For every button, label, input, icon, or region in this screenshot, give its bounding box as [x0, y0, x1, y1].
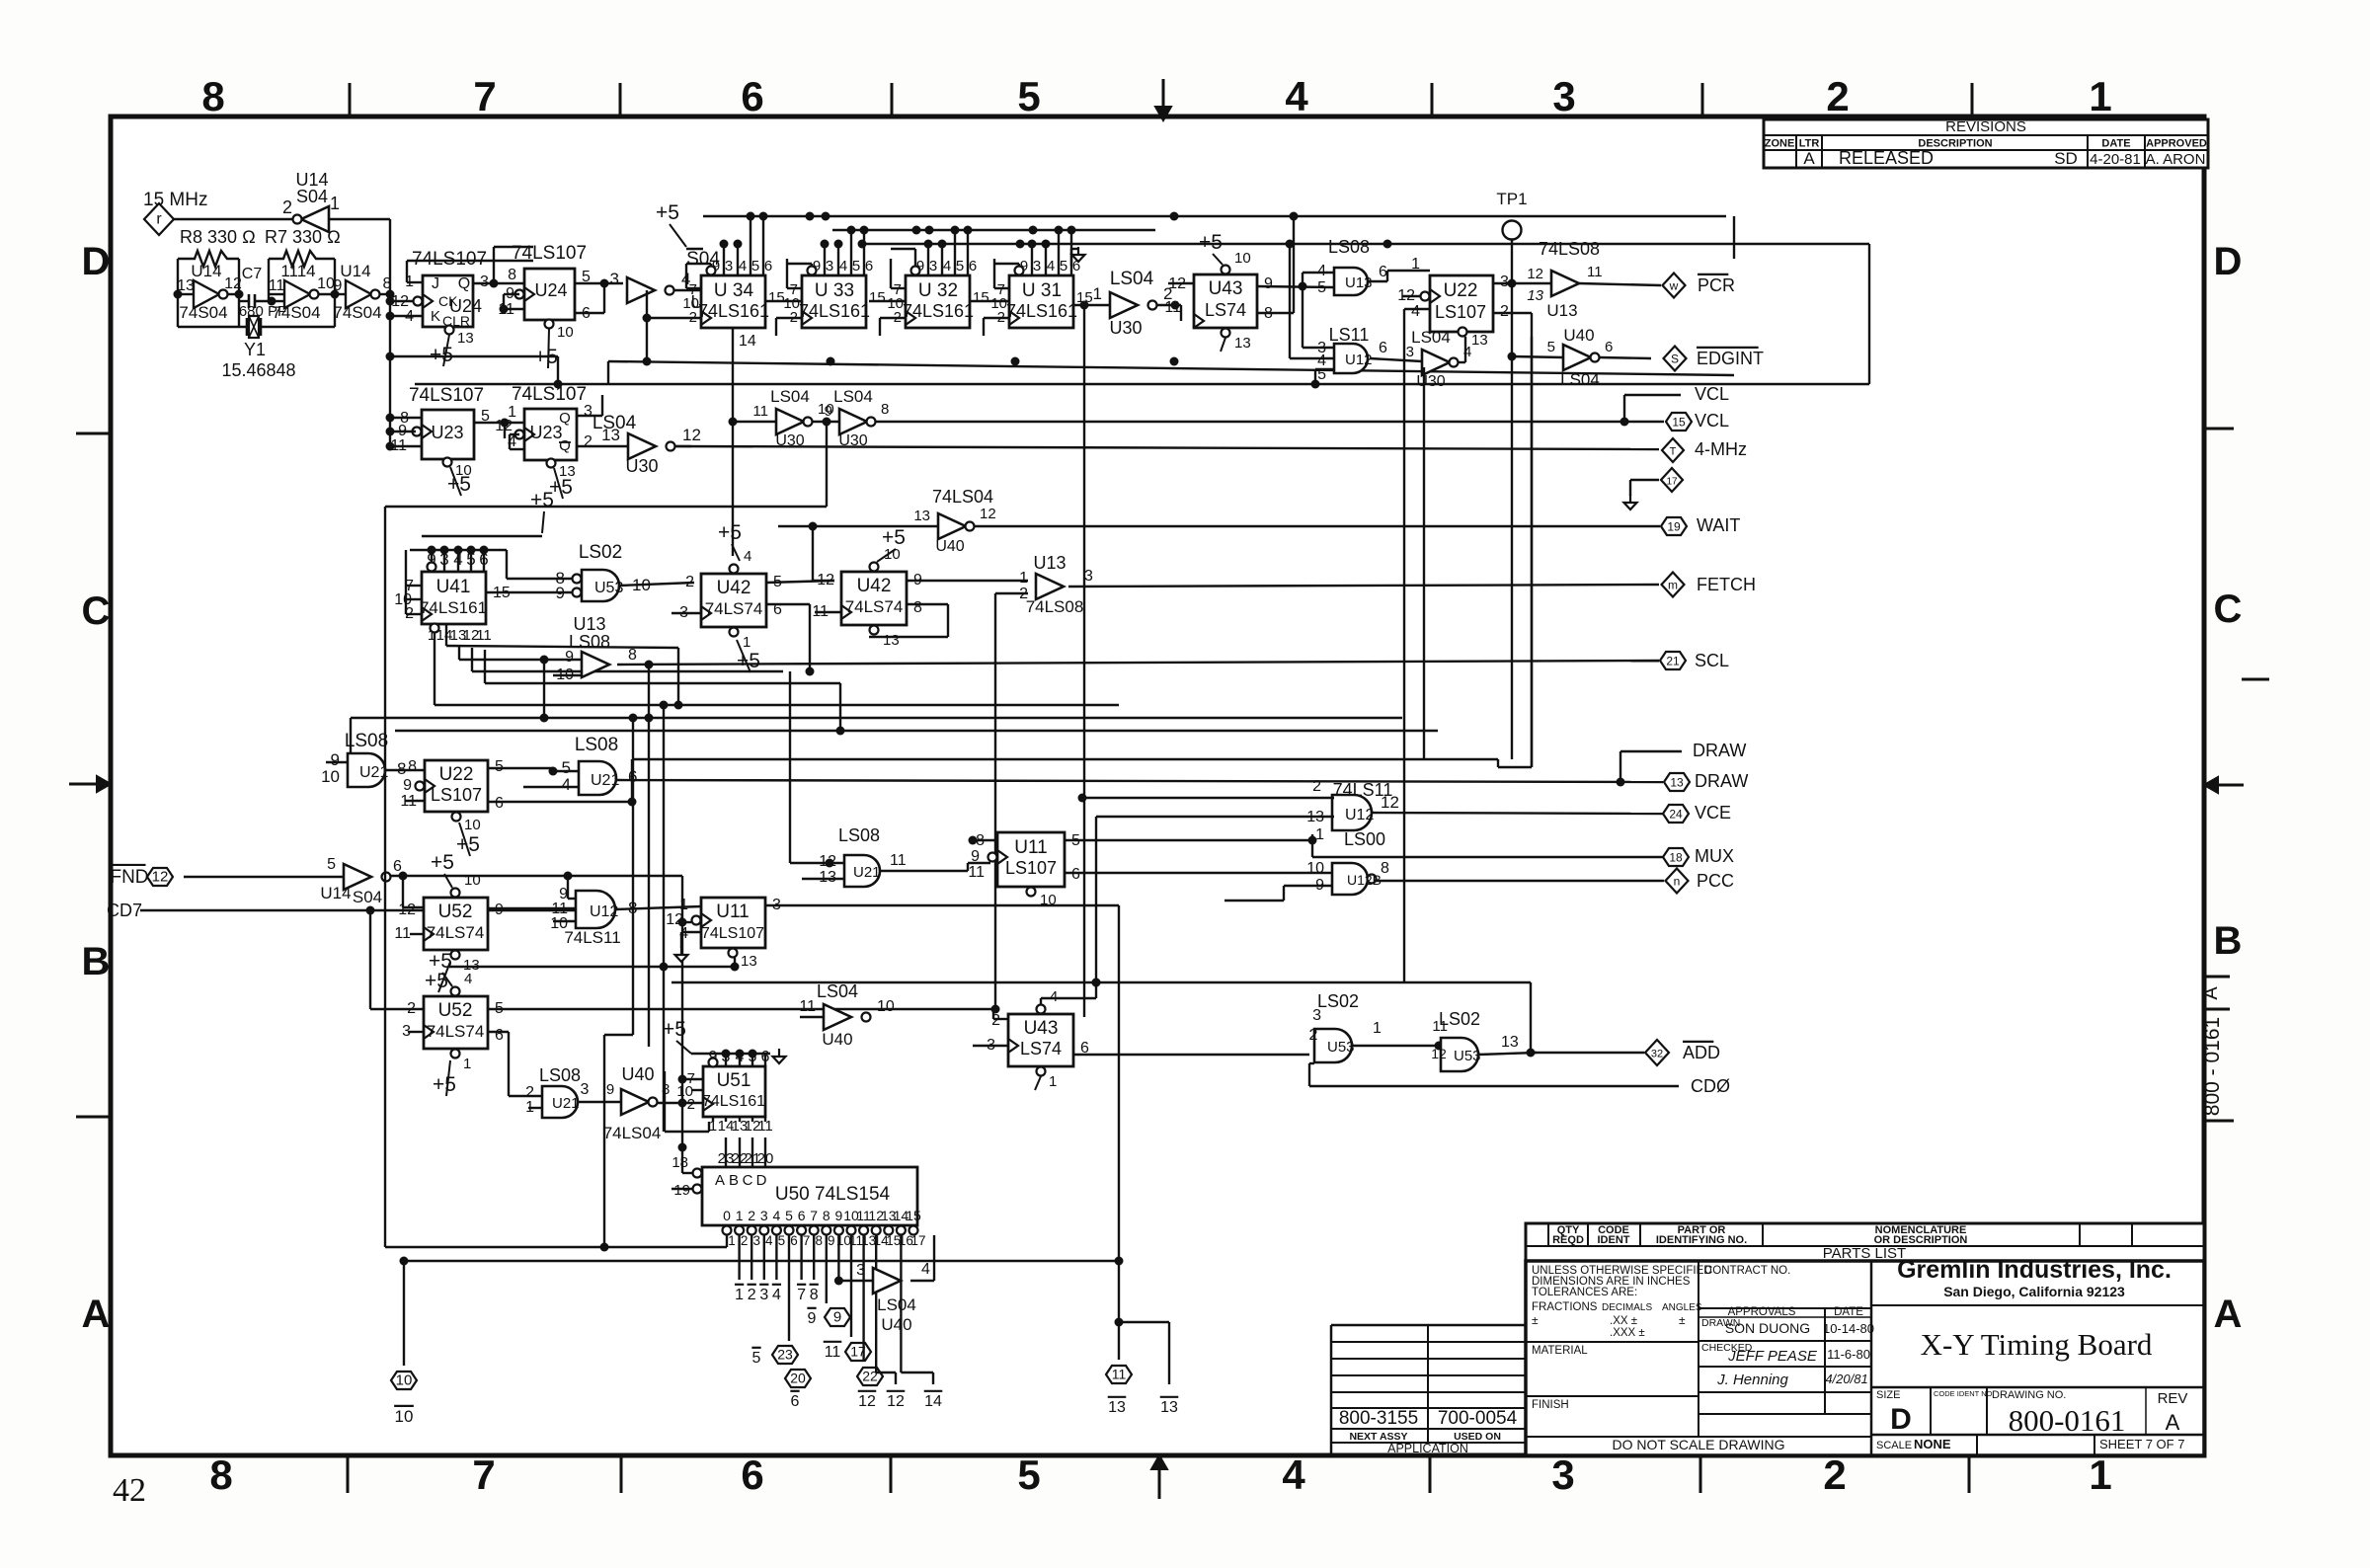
- wire U32 top pin stubs: [927, 244, 929, 275]
- svg-text:LS08: LS08: [1328, 237, 1370, 257]
- svg-text:14: 14: [739, 333, 756, 350]
- svg-text:IDENTIFYING NO.: IDENTIFYING NO.: [1656, 1234, 1747, 1246]
- svg-text:U53: U53: [594, 580, 623, 596]
- svg-text:13: 13: [883, 632, 900, 649]
- wire hex 10 drop: [403, 1261, 405, 1366]
- svg-text:12: 12: [398, 902, 416, 918]
- svg-text:6: 6: [969, 258, 977, 274]
- svg-text:12: 12: [682, 426, 701, 444]
- svg-text:9: 9: [565, 649, 574, 666]
- svg-text:U14: U14: [340, 262, 370, 280]
- svg-text:.XX ±: .XX ±: [1610, 1315, 1637, 1327]
- svg-text:CODE IDENT NO.: CODE IDENT NO.: [1934, 1389, 1995, 1398]
- svg-text:MATERIAL: MATERIAL: [1532, 1345, 1588, 1357]
- wire node column to y389 line: [390, 355, 558, 357]
- wire counter pin2 clock feeds: [647, 317, 701, 319]
- wire corner to 13: [1119, 1321, 1169, 1323]
- wire U50 drop 9 to hex: [826, 1235, 828, 1303]
- svg-text:U 31: U 31: [1022, 280, 1062, 301]
- svg-text:+5: +5: [718, 521, 742, 544]
- svg-text:FINISH: FINISH: [1532, 1399, 1569, 1411]
- svg-text:U30: U30: [625, 456, 658, 476]
- svg-text:MUX: MUX: [1695, 846, 1734, 866]
- svg-text:6: 6: [1379, 340, 1387, 356]
- svg-text:5: 5: [1017, 1451, 1040, 1498]
- R7 feedback loop wires: [268, 259, 270, 301]
- connector n PCC: [1666, 869, 1689, 894]
- svg-text:S04: S04: [296, 187, 328, 206]
- svg-text:12: 12: [980, 506, 996, 522]
- svg-text:17: 17: [910, 1233, 925, 1248]
- svg-text:2: 2: [1826, 73, 1849, 119]
- svg-text:8: 8: [1381, 860, 1389, 877]
- svg-text:4: 4: [744, 548, 751, 565]
- svg-text:IDENT: IDENT: [1598, 1234, 1630, 1246]
- wire U52-2 out5 long: [488, 1008, 993, 1010]
- wire vertical x1893: [1868, 244, 1870, 384]
- svg-text:U50 74LS154: U50 74LS154: [775, 1184, 891, 1205]
- wire U21 right out to U11-2: [880, 870, 968, 872]
- counter U33 74LS161: [802, 275, 866, 328]
- svg-text:3: 3: [759, 1287, 768, 1303]
- svg-text:9: 9: [808, 1310, 817, 1327]
- wire to PCR connector: [1579, 283, 1661, 285]
- svg-text:8: 8: [823, 1208, 830, 1223]
- wire U22 pin4 to trunk: [1404, 308, 1430, 310]
- svg-text:LS04: LS04: [817, 981, 858, 1001]
- svg-text:2: 2: [1309, 1027, 1318, 1044]
- svg-text:74LS08: 74LS08: [1026, 597, 1084, 616]
- svg-text:74LS161: 74LS161: [799, 301, 870, 321]
- svg-text:9: 9: [495, 902, 504, 918]
- svg-text:r: r: [156, 211, 162, 228]
- svg-text:A: A: [82, 1293, 111, 1336]
- svg-text:15.46848: 15.46848: [221, 360, 295, 380]
- svg-text:74LS74: 74LS74: [427, 1022, 485, 1041]
- svg-text:4: 4: [1050, 988, 1058, 1005]
- svg-text:+5: +5: [425, 970, 448, 992]
- wire U40 out to U51: [658, 1102, 703, 1104]
- svg-text:5: 5: [1317, 279, 1326, 296]
- svg-text:U42: U42: [857, 576, 892, 596]
- svg-text:LS74: LS74: [1205, 300, 1246, 320]
- wire counters pin9 rail: [695, 249, 703, 264]
- wire U23 pins from node column: [390, 417, 422, 419]
- wire U24-2 out down to row2 region: [603, 261, 605, 283]
- svg-text:C: C: [743, 1172, 753, 1189]
- wire U21 input1: [528, 1107, 542, 1109]
- svg-text:U12: U12: [590, 903, 618, 920]
- svg-text:11: 11: [1587, 264, 1603, 280]
- svg-text:DO NOT SCALE DRAWING: DO NOT SCALE DRAWING: [1612, 1437, 1784, 1452]
- wire EDGINT from TP1 node: [1512, 356, 1563, 357]
- svg-text:LS04: LS04: [1110, 269, 1154, 289]
- finish cell: [1526, 1395, 1698, 1397]
- wire U21 inputs: [326, 761, 348, 763]
- wire U43-2 out6 to U53: [1073, 1054, 1309, 1056]
- wire U24-1 pins: [390, 300, 413, 302]
- svg-text:3: 3: [1084, 568, 1093, 585]
- svg-text:74LS11: 74LS11: [564, 928, 620, 947]
- svg-text:13: 13: [1670, 776, 1684, 790]
- svg-text:S: S: [1671, 353, 1679, 366]
- svg-text:2: 2: [282, 197, 292, 217]
- alignment arrow left: [69, 783, 99, 786]
- svg-text:+5: +5: [430, 344, 453, 366]
- svg-text:10-14-80: 10-14-80: [1823, 1321, 1874, 1336]
- svg-text:1: 1: [1373, 1020, 1382, 1037]
- svg-text:CD7: CD7: [107, 901, 142, 920]
- wire U24-2 feedback 9-11: [504, 293, 519, 295]
- svg-text:4/20/81: 4/20/81: [1825, 1372, 1867, 1386]
- svg-text:LS107: LS107: [1005, 858, 1057, 878]
- svg-text:13: 13: [1527, 287, 1543, 304]
- svg-text:13: 13: [1234, 335, 1251, 352]
- wire U42-2 out9 to U13: [907, 580, 1028, 582]
- connector 21 SCL: [1660, 652, 1686, 669]
- wire U41 left outer loop: [406, 549, 410, 551]
- svg-text:D: D: [1890, 1403, 1912, 1436]
- svg-text:7: 7: [803, 1233, 811, 1248]
- svg-text:San Diego, California 92123: San Diego, California 92123: [1943, 1284, 2125, 1299]
- ground at U31 pin6: [1070, 249, 1072, 266]
- svg-text:32: 32: [1651, 1049, 1663, 1060]
- svg-text:.XXX ±: .XXX ±: [1610, 1327, 1645, 1339]
- wire trunk x672: [663, 705, 665, 1132]
- svg-text:D: D: [2214, 240, 2243, 283]
- svg-text:8: 8: [628, 647, 637, 664]
- wire U53 inputs: [507, 578, 572, 580]
- svg-text:8: 8: [913, 599, 922, 616]
- wire counter pin7 stubs: [686, 287, 701, 289]
- svg-text:3: 3: [1033, 258, 1041, 274]
- svg-text:DATE: DATE: [1834, 1306, 1863, 1318]
- svg-text:0: 0: [723, 1208, 731, 1223]
- svg-text:2: 2: [1500, 303, 1509, 320]
- wire trunk x657: [648, 665, 650, 1047]
- wire U53-2 out to ADD: [1478, 1053, 1537, 1055]
- wire U22 pin9/11: [414, 785, 425, 787]
- svg-text:4: 4: [1411, 303, 1420, 320]
- svg-text:T: T: [1670, 446, 1677, 458]
- svg-text:11: 11: [752, 403, 768, 420]
- wire WAIT line: [975, 525, 1660, 527]
- svg-text:U40: U40: [1563, 326, 1594, 345]
- svg-text:Gremlin Industries, Inc.: Gremlin Industries, Inc.: [1897, 1256, 2172, 1284]
- svg-text:13: 13: [741, 953, 757, 970]
- wire 15MHz to inverter: [174, 218, 296, 220]
- wire U50 drops 7 8: [800, 1235, 802, 1280]
- svg-text:C: C: [2214, 588, 2243, 631]
- wire VCL long line to connector: [876, 421, 1664, 423]
- do not scale drawing cell: [1526, 1436, 1871, 1438]
- svg-text:U43: U43: [1209, 278, 1243, 299]
- svg-text:2: 2: [407, 1000, 416, 1017]
- connector 19 WAIT: [1661, 517, 1687, 535]
- svg-text:2: 2: [741, 1233, 749, 1248]
- svg-text:5: 5: [752, 1350, 761, 1367]
- wire U41 left pins: [405, 550, 407, 614]
- svg-text:4: 4: [562, 775, 571, 794]
- svg-text:U21: U21: [853, 864, 881, 881]
- svg-text:LS08: LS08: [575, 735, 618, 755]
- svg-text:2: 2: [991, 1012, 1000, 1029]
- svg-text:6: 6: [1071, 866, 1080, 883]
- svg-text:B: B: [729, 1172, 739, 1189]
- svg-text:3: 3: [584, 403, 592, 420]
- svg-text:5: 5: [1017, 73, 1040, 119]
- wire U34 pin14 long trunk down: [732, 328, 734, 556]
- decoder U50 74LS154: [702, 1167, 917, 1225]
- svg-text:U22: U22: [439, 764, 474, 785]
- svg-text:4: 4: [1317, 263, 1326, 279]
- svg-text:1114: 1114: [280, 262, 315, 280]
- svg-text:9: 9: [835, 1208, 843, 1223]
- wire CD0 loop from U53-1 input: [1309, 1062, 1314, 1064]
- svg-text:10: 10: [877, 998, 895, 1015]
- wire U51 to U50 address lines: [725, 1137, 727, 1167]
- wire U13 SCL inputs: [553, 674, 582, 676]
- svg-text:±: ±: [1532, 1313, 1539, 1327]
- flip-flop U11 74LS107 (mid): [701, 898, 765, 948]
- svg-text:9: 9: [334, 277, 343, 294]
- svg-text:10: 10: [1234, 250, 1251, 267]
- svg-text:3: 3: [1500, 274, 1509, 290]
- connector 32 ADD: [1645, 1040, 1669, 1065]
- svg-text:6: 6: [764, 258, 772, 274]
- wire U22 pin2 down trunk x1551: [1493, 312, 1532, 314]
- svg-text:20: 20: [790, 1371, 806, 1386]
- wire U21 mid input 4: [523, 786, 579, 788]
- svg-text:B: B: [82, 940, 111, 983]
- svg-text:m: m: [1668, 579, 1678, 592]
- svg-text:RELEASED: RELEASED: [1839, 148, 1934, 168]
- flip-flop U52 74LS74 #2: [424, 996, 488, 1049]
- wire 4-MHz long line: [675, 446, 1659, 449]
- wire U50 pin1 long left: [726, 1235, 728, 1247]
- svg-text:B: B: [2214, 919, 2243, 963]
- wire U22 pin12 stub: [1402, 295, 1420, 297]
- svg-text:10: 10: [395, 1407, 414, 1426]
- connector 15 VCL: [1666, 413, 1692, 431]
- svg-text:20: 20: [757, 1150, 774, 1167]
- connector 24 VCE: [1663, 805, 1689, 823]
- svg-text:U13: U13: [1345, 274, 1373, 291]
- wire U51 left pins: [682, 1078, 703, 1080]
- svg-text:2: 2: [748, 1287, 756, 1303]
- svg-text:+5: +5: [656, 201, 679, 224]
- svg-text:3: 3: [480, 274, 489, 290]
- svg-text:TOLERANCES ARE:: TOLERANCES ARE:: [1532, 1287, 1637, 1298]
- wire U31 top pin stubs: [1031, 244, 1033, 275]
- wire U41 top pin rail: [410, 549, 507, 551]
- svg-text:74LS161: 74LS161: [903, 301, 974, 321]
- svg-text:74S04: 74S04: [272, 303, 320, 322]
- svg-text:2: 2: [685, 574, 694, 590]
- svg-text:A: A: [715, 1172, 725, 1189]
- svg-text:1: 1: [463, 1056, 471, 1072]
- svg-text:U11: U11: [716, 902, 749, 922]
- svg-text:9: 9: [833, 1309, 841, 1326]
- svg-text:LS00: LS00: [1344, 829, 1385, 849]
- svg-text:8: 8: [881, 401, 889, 418]
- svg-text:ADD: ADD: [1683, 1043, 1720, 1062]
- wire U12 VCE inputs: [1082, 797, 1334, 799]
- svg-text:74LS04: 74LS04: [603, 1124, 662, 1142]
- svg-text:21: 21: [1666, 655, 1680, 668]
- flip-flop U42 74LS74 #1: [701, 574, 766, 627]
- wire CD0 line: [1309, 1085, 1679, 1087]
- svg-text:3: 3: [1406, 344, 1414, 360]
- svg-text:U53: U53: [1454, 1048, 1481, 1064]
- wire DRAW long line: [617, 780, 1663, 782]
- alignment arrow right: [2216, 784, 2244, 787]
- svg-text:12: 12: [1431, 1046, 1447, 1061]
- wire ADD top line: [671, 981, 1531, 983]
- wire U42-1 out6 down: [766, 603, 810, 605]
- wire U50 drops short group: [738, 1235, 740, 1280]
- svg-text:NONE: NONE: [1914, 1437, 1951, 1451]
- material cell: [1526, 1341, 1698, 1343]
- svg-text:19: 19: [1667, 520, 1681, 534]
- svg-text:FND: FND: [110, 867, 148, 888]
- wire CD7 line: [140, 909, 576, 911]
- svg-text:DRAW: DRAW: [1695, 771, 1748, 791]
- svg-text:1: 1: [743, 634, 750, 651]
- svg-text:A. ARON: A. ARON: [2146, 151, 2206, 168]
- svg-text:1: 1: [1049, 1073, 1057, 1090]
- svg-text:LS08: LS08: [569, 632, 610, 652]
- wire LS04 out up to U22 pin13: [1459, 361, 1465, 363]
- wire U23-2 feedback: [510, 433, 519, 435]
- svg-text:7: 7: [797, 1287, 806, 1303]
- svg-text:4: 4: [773, 1208, 781, 1223]
- wire VCE line: [1368, 813, 1663, 814]
- svg-text:U40: U40: [822, 1030, 852, 1049]
- svg-text:EDGINT: EDGINT: [1697, 349, 1764, 368]
- svg-text:4: 4: [1282, 1451, 1305, 1498]
- svg-text:3: 3: [725, 258, 733, 274]
- svg-text:2: 2: [584, 433, 592, 450]
- svg-text:LS107: LS107: [431, 785, 482, 805]
- wire TP1 vertical: [1511, 240, 1513, 759]
- svg-text:12: 12: [858, 1393, 876, 1410]
- svg-text:LS02: LS02: [579, 542, 622, 563]
- wire FND to inverter: [184, 876, 344, 878]
- wire middle bundle: [434, 704, 1119, 706]
- svg-text:U30: U30: [1416, 373, 1445, 390]
- svg-text:A: A: [2166, 1410, 2180, 1435]
- svg-text:3: 3: [856, 1262, 865, 1279]
- wire ADD line: [1533, 1052, 1644, 1054]
- svg-text:800-0161: 800-0161: [2009, 1403, 2126, 1438]
- svg-text:12: 12: [152, 869, 169, 886]
- wire LS00 input 9: [1284, 885, 1332, 887]
- wire U21 mid out (DRAW): [616, 778, 623, 780]
- wire U43-2 pin4 loop up: [1040, 998, 1042, 1004]
- svg-text:74LS161: 74LS161: [1006, 301, 1077, 321]
- svg-text:4: 4: [772, 1287, 781, 1303]
- wire U50 drop 13 to hex 22: [862, 1235, 864, 1362]
- svg-text:74S04: 74S04: [333, 303, 381, 322]
- svg-text:13: 13: [1108, 1399, 1126, 1416]
- svg-text:CONTRACT NO.: CONTRACT NO.: [1704, 1265, 1790, 1277]
- svg-text:R8 330 Ω: R8 330 Ω: [180, 227, 256, 247]
- wire U12 out8 to U11 pin1: [615, 906, 701, 909]
- svg-text:8: 8: [810, 1287, 819, 1303]
- wire inverter input from node: [329, 218, 390, 220]
- wire U42-2 out8: [907, 603, 948, 605]
- svg-text:U30: U30: [1109, 318, 1142, 338]
- svg-text:11: 11: [476, 627, 492, 644]
- svg-text:15: 15: [768, 289, 785, 306]
- svg-text:4: 4: [1285, 73, 1308, 119]
- svg-text:w: w: [1669, 279, 1679, 293]
- svg-text:U41: U41: [436, 577, 471, 597]
- svg-text:K: K: [431, 308, 440, 325]
- wire trunk x691 FND net down to U50 pin18: [681, 876, 683, 1173]
- wire U51 top pin rail: [691, 1053, 770, 1055]
- alignment arrow bottom: [1158, 1467, 1161, 1499]
- svg-text:1: 1: [728, 1233, 736, 1248]
- svg-text:U 34: U 34: [714, 280, 754, 301]
- svg-text:VCL: VCL: [1695, 384, 1729, 404]
- wire U34 top pin stubs: [723, 244, 725, 275]
- svg-text:APPROVED: APPROVED: [2146, 138, 2207, 150]
- wire trunk x1133 bottom: [1118, 905, 1120, 1360]
- svg-text:PCC: PCC: [1697, 871, 1734, 891]
- svg-text:4: 4: [943, 258, 951, 274]
- svg-text:6: 6: [495, 1027, 504, 1044]
- svg-text:10: 10: [1306, 860, 1324, 877]
- wire U11 out3 long: [765, 904, 1119, 906]
- svg-text:PCR: PCR: [1698, 275, 1735, 295]
- svg-text:Y1: Y1: [244, 340, 266, 359]
- svg-text:4: 4: [839, 258, 847, 274]
- wire U50 drop 14: [875, 1235, 877, 1372]
- svg-text:11: 11: [825, 1344, 841, 1361]
- svg-text:SD: SD: [2054, 149, 2078, 168]
- svg-text:U14: U14: [191, 262, 221, 280]
- wire U43 out9 to gates: [1257, 286, 1334, 287]
- svg-text:15: 15: [1672, 416, 1686, 430]
- wire top bus line A y219: [703, 215, 1726, 217]
- flip-flop U11 LS107 (right): [997, 832, 1065, 887]
- wire U22 out3 to LS08 buffer: [1493, 282, 1551, 284]
- wire U11-2 left pins: [973, 839, 997, 841]
- wire U52-1 out9 to U12 gate: [488, 907, 576, 909]
- wire x837 down to y513 line: [826, 422, 828, 507]
- svg-text:4-20-81: 4-20-81: [2090, 151, 2141, 168]
- wire trunk x1422 (U22 pin4 down): [1403, 309, 1405, 982]
- counter U34 74LS161: [701, 275, 765, 328]
- wire trunk x641: [632, 718, 634, 1035]
- wire long y1277: [404, 1260, 1119, 1262]
- svg-text:U14: U14: [320, 884, 351, 902]
- svg-text:U 33: U 33: [815, 280, 854, 301]
- svg-text:11: 11: [890, 852, 907, 869]
- wire MUX line: [1312, 856, 1663, 858]
- svg-text:74LS08: 74LS08: [1539, 239, 1600, 259]
- wire LS04 4MHz output: [675, 445, 691, 447]
- wire misc verticals: [789, 671, 791, 863]
- wire U42-2 pin11 input: [815, 611, 841, 613]
- svg-text:JEFF PEASE: JEFF PEASE: [1727, 1348, 1818, 1365]
- svg-text:5: 5: [956, 258, 964, 274]
- inverter U14 S04 (left-facing): [301, 206, 329, 232]
- wire long horizontal y389: [415, 383, 1869, 385]
- svg-text:Q: Q: [559, 437, 571, 454]
